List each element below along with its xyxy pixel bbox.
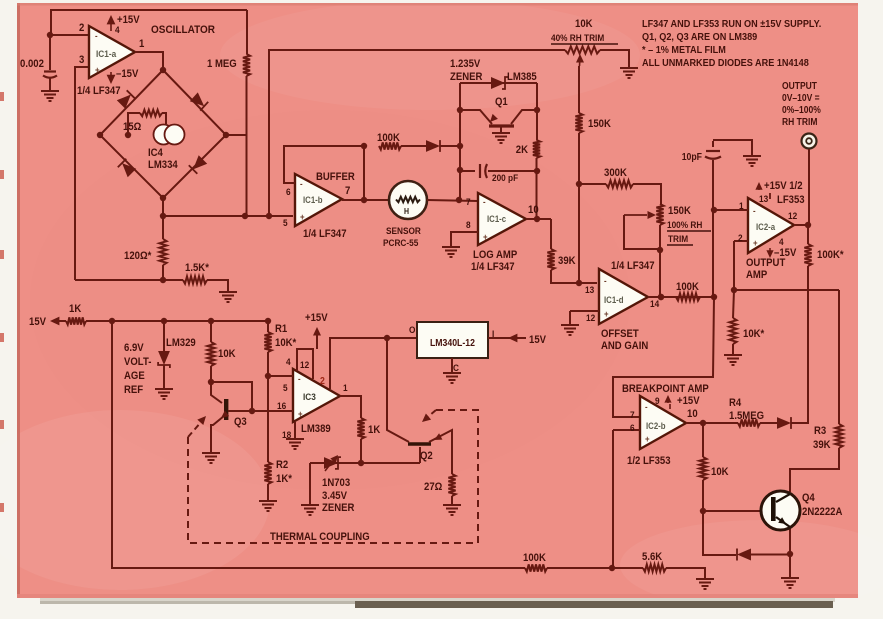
svg-text:Q2: Q2: [420, 450, 433, 462]
svg-text:27Ω: 27Ω: [424, 481, 442, 493]
svg-text:15Ω: 15Ω: [123, 121, 141, 133]
svg-text:10K: 10K: [711, 466, 729, 478]
svg-text:LM329: LM329: [166, 337, 196, 349]
svg-text:+: +: [298, 408, 303, 419]
svg-text:+: +: [300, 211, 305, 222]
svg-text:R3: R3: [814, 425, 826, 437]
svg-text:1N703: 1N703: [322, 477, 350, 489]
svg-text:7: 7: [466, 196, 471, 207]
svg-text:9: 9: [655, 395, 660, 406]
svg-text:IC1-b: IC1-b: [303, 194, 323, 205]
svg-text:ZENER: ZENER: [322, 502, 355, 514]
svg-text:2: 2: [738, 232, 743, 243]
svg-text:6.9V: 6.9V: [124, 342, 144, 354]
svg-text:OSCILLATOR: OSCILLATOR: [151, 23, 215, 36]
svg-text:6: 6: [630, 422, 635, 433]
svg-text:1/2 LF353: 1/2 LF353: [627, 455, 671, 467]
svg-text:H: H: [404, 207, 409, 217]
svg-text:R4: R4: [729, 397, 741, 409]
svg-text:R1: R1: [275, 323, 287, 335]
svg-text:150K: 150K: [668, 205, 691, 217]
svg-text:10K*: 10K*: [743, 328, 764, 340]
svg-text:14: 14: [650, 298, 659, 309]
svg-text:AND GAIN: AND GAIN: [601, 340, 648, 352]
svg-text:OFFSET: OFFSET: [601, 328, 639, 340]
svg-text:+15V: +15V: [305, 312, 328, 324]
svg-text:2: 2: [79, 22, 85, 34]
svg-text:ALL UNMARKED DIODES ARE 1N4148: ALL UNMARKED DIODES ARE 1N4148: [642, 57, 809, 69]
svg-text:1: 1: [343, 382, 348, 393]
svg-text:AMP: AMP: [746, 269, 767, 281]
svg-text:1.5MEG: 1.5MEG: [729, 410, 764, 422]
svg-text:1/4 LF347: 1/4 LF347: [471, 261, 515, 273]
svg-text:-: -: [298, 373, 301, 384]
svg-text:Q4: Q4: [802, 492, 815, 504]
svg-text:39K: 39K: [813, 439, 831, 451]
svg-text:+: +: [753, 237, 758, 248]
svg-text:SENSOR: SENSOR: [386, 225, 421, 236]
svg-text:100K: 100K: [523, 552, 546, 564]
svg-text:+15V: +15V: [677, 395, 700, 407]
svg-text:150K: 150K: [588, 118, 611, 130]
svg-text:REF: REF: [124, 384, 143, 396]
svg-text:100K: 100K: [676, 281, 699, 293]
svg-text:40% RH TRIM: 40% RH TRIM: [551, 32, 604, 43]
svg-text:4: 4: [115, 24, 120, 35]
svg-text:+15V 1/2: +15V 1/2: [764, 180, 803, 192]
svg-text:100K*: 100K*: [817, 249, 844, 261]
svg-text:18: 18: [282, 429, 291, 440]
svg-text:1/4 LF347: 1/4 LF347: [303, 228, 347, 240]
svg-text:10K: 10K: [218, 348, 236, 360]
svg-text:LM340L-12: LM340L-12: [430, 337, 475, 348]
svg-text:-: -: [95, 30, 98, 41]
svg-text:OUTPUT: OUTPUT: [746, 257, 786, 269]
svg-text:1/4 LF347: 1/4 LF347: [77, 85, 121, 97]
svg-text:AGE: AGE: [124, 370, 145, 382]
svg-text:2K: 2K: [516, 144, 529, 156]
svg-text:1K: 1K: [69, 303, 82, 315]
svg-text:LF347 AND LF353 RUN ON ±15V SU: LF347 AND LF353 RUN ON ±15V SUPPLY.: [642, 18, 821, 30]
svg-text:Q3: Q3: [234, 416, 247, 428]
svg-text:5: 5: [283, 382, 288, 393]
svg-text:10K: 10K: [575, 18, 593, 30]
svg-text:+15V: +15V: [117, 14, 140, 26]
svg-text:C: C: [453, 362, 459, 373]
svg-text:-: -: [483, 196, 486, 207]
svg-text:13: 13: [759, 193, 768, 204]
svg-text:I: I: [492, 328, 494, 339]
svg-text:+: +: [95, 64, 100, 75]
svg-text:IC4: IC4: [148, 147, 163, 159]
svg-text:BREAKPOINT AMP: BREAKPOINT AMP: [622, 383, 709, 395]
svg-text:120Ω*: 120Ω*: [124, 250, 151, 262]
svg-text:1K*: 1K*: [276, 473, 292, 485]
svg-text:O: O: [409, 324, 415, 335]
svg-text:-: -: [604, 275, 607, 286]
svg-text:1.5K*: 1.5K*: [185, 262, 209, 274]
svg-text:IC1-d: IC1-d: [604, 294, 624, 305]
svg-text:6: 6: [286, 186, 291, 197]
svg-text:LM334: LM334: [148, 159, 178, 171]
svg-text:1 MEG: 1 MEG: [207, 58, 237, 70]
svg-text:IC2-a: IC2-a: [756, 221, 775, 232]
svg-text:1: 1: [739, 200, 744, 211]
svg-text:7: 7: [345, 185, 351, 197]
svg-text:12: 12: [586, 312, 595, 323]
svg-text:2N2222A: 2N2222A: [802, 506, 843, 518]
svg-text:LF353: LF353: [777, 194, 805, 206]
svg-text:39K: 39K: [558, 255, 576, 267]
svg-text:–15V: –15V: [116, 68, 138, 80]
svg-text:LOG AMP: LOG AMP: [473, 249, 517, 261]
svg-text:10K*: 10K*: [275, 337, 296, 349]
svg-text:LM389: LM389: [301, 423, 331, 435]
svg-text:100K: 100K: [377, 132, 400, 144]
svg-text:PCRC-55: PCRC-55: [383, 237, 418, 248]
svg-text:IC2-b: IC2-b: [646, 420, 666, 431]
svg-text:LM385: LM385: [507, 71, 537, 83]
svg-text:0.002: 0.002: [20, 58, 44, 70]
svg-text:3.45V: 3.45V: [322, 490, 347, 502]
svg-text:+: +: [604, 308, 609, 319]
svg-text:15V: 15V: [29, 316, 46, 328]
svg-text:+: +: [483, 231, 488, 242]
svg-text:5: 5: [283, 217, 288, 228]
svg-text:IC1-c: IC1-c: [487, 213, 506, 224]
svg-text:1K: 1K: [368, 424, 381, 436]
svg-text:4: 4: [779, 236, 784, 247]
svg-text:TRIM: TRIM: [668, 233, 688, 244]
svg-text:1: 1: [139, 38, 145, 50]
svg-text:100% RH: 100% RH: [667, 219, 702, 230]
svg-text:0V–10V =: 0V–10V =: [782, 92, 820, 103]
svg-text:IC3: IC3: [303, 391, 316, 402]
svg-text:RH TRIM: RH TRIM: [782, 116, 818, 127]
svg-text:13: 13: [585, 284, 594, 295]
svg-text:+: +: [645, 433, 650, 444]
svg-text:5.6K: 5.6K: [642, 551, 663, 563]
svg-text:8: 8: [466, 219, 471, 230]
svg-text:Q1: Q1: [495, 96, 508, 108]
svg-text:2: 2: [320, 375, 325, 386]
svg-text:7: 7: [630, 409, 635, 420]
svg-text:ZENER: ZENER: [450, 71, 483, 83]
svg-text:OUTPUT: OUTPUT: [782, 80, 817, 91]
svg-text:15V: 15V: [529, 334, 546, 346]
svg-text:16: 16: [277, 400, 286, 411]
svg-text:-: -: [645, 401, 648, 412]
svg-text:200 pF: 200 pF: [492, 172, 519, 183]
svg-text:BUFFER: BUFFER: [316, 171, 355, 183]
svg-text:3: 3: [79, 54, 85, 66]
svg-text:0%–100%: 0%–100%: [782, 104, 821, 115]
svg-text:IC1-a: IC1-a: [96, 48, 116, 59]
svg-text:1/4 LF347: 1/4 LF347: [611, 260, 655, 272]
svg-text:R2: R2: [276, 459, 288, 471]
svg-text:10: 10: [528, 204, 539, 216]
svg-text:-: -: [300, 178, 303, 189]
svg-text:1.235V: 1.235V: [450, 58, 480, 70]
svg-text:300K: 300K: [604, 167, 627, 179]
svg-text:12: 12: [300, 359, 309, 370]
svg-text:THERMAL COUPLING: THERMAL COUPLING: [270, 531, 370, 543]
svg-text:12: 12: [788, 210, 797, 221]
svg-text:4: 4: [286, 356, 291, 367]
svg-text:-: -: [753, 205, 756, 216]
svg-text:10pF: 10pF: [682, 151, 703, 162]
svg-text:VOLT-: VOLT-: [124, 356, 152, 368]
svg-text:Q1, Q2, Q3 ARE ON LM389: Q1, Q2, Q3 ARE ON LM389: [642, 31, 758, 43]
svg-text:* – 1% METAL FILM: * – 1% METAL FILM: [642, 44, 726, 56]
svg-text:10: 10: [687, 408, 698, 420]
